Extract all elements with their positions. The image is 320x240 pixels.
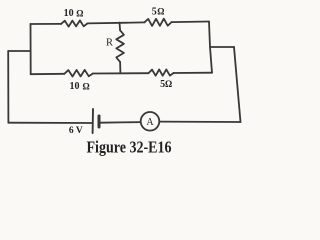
- wire right tap connector: [210, 46, 234, 48]
- battery 6V long plate: [92, 109, 94, 133]
- wire battery to ammeter: [101, 121, 141, 124]
- wire bottom rail right segment: [174, 72, 213, 74]
- wire middle vertical top lead: [119, 23, 122, 31]
- resistor 10ohm top-left: [61, 20, 88, 26]
- wire ammeter to right: [159, 121, 240, 123]
- resistor 5ohm top-right: [144, 19, 171, 26]
- svg-text:Figure 32-E16: Figure 32-E16: [87, 137, 172, 156]
- wire bottom rail left segment: [31, 73, 65, 75]
- resistor 10ohm bottom: [64, 70, 93, 77]
- wire middle vertical bottom lead: [119, 62, 121, 73]
- wire top rail right segment: [172, 21, 209, 24]
- wire left tap connector: [8, 50, 30, 52]
- resistor R middle vertical: [116, 30, 124, 62]
- svg-text:5Ω: 5Ω: [152, 7, 165, 18]
- wire top rail left segment: [31, 23, 62, 25]
- svg-text:A: A: [146, 117, 154, 128]
- wire bottom rail middle segment: [93, 72, 148, 74]
- wire bottom rail to battery: [8, 122, 92, 124]
- wire bridge right vertical: [209, 22, 212, 73]
- wire bridge left vertical: [30, 24, 32, 74]
- wire top rail middle segment: [88, 22, 145, 23]
- ammeter A circle: [141, 112, 160, 131]
- battery 6V short plate: [98, 116, 101, 127]
- wire outer left vertical: [7, 51, 9, 123]
- resistor 5ohm bottom-right: [148, 70, 173, 76]
- wire outer right vertical: [234, 47, 241, 122]
- svg-text:6 V: 6 V: [69, 126, 83, 136]
- svg-text:R: R: [106, 37, 113, 48]
- svg-text:10Ω: 10Ω: [64, 8, 84, 19]
- svg-text:10Ω: 10Ω: [70, 81, 90, 92]
- svg-text:5Ω: 5Ω: [160, 79, 172, 90]
